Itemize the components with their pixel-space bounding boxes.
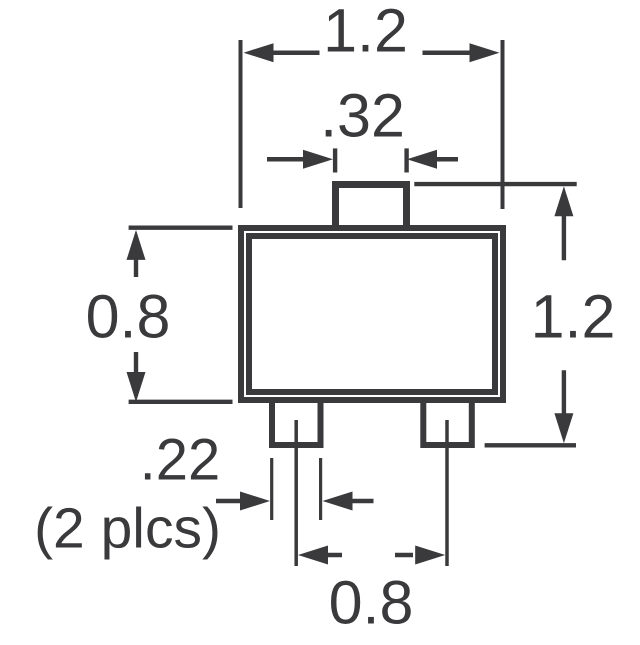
label .32 (tab width) — [320, 82, 405, 150]
label 0.8 (lead pitch) — [329, 569, 414, 637]
extension line, body right edge (for top 1.2) — [501, 40, 505, 209]
svg-text:0.8: 0.8 — [86, 283, 171, 351]
dimension line with arrows, right 1.2 — [554, 186, 573, 443]
svg-text:.22: .22 — [140, 428, 221, 493]
extension tick, tab right edge (for .32) — [404, 148, 408, 172]
label 1.2 (top width) — [323, 0, 408, 65]
extension tick, lead left edge (for .22) — [270, 458, 273, 520]
extension line, body bottom edge (for left 0.8) — [129, 400, 233, 404]
svg-text:1.2: 1.2 — [531, 283, 616, 351]
label 1.2 (overall height) — [531, 283, 616, 351]
label (2 plcs) — [34, 497, 221, 561]
dimension line with arrows, top 1.2 — [244, 43, 500, 62]
label 0.8 (body height) — [86, 283, 171, 351]
package body inner outline — [249, 236, 495, 392]
center line, right lead (for bottom 0.8) — [445, 420, 449, 566]
bottom left lead — [272, 401, 321, 445]
extension line, lead bottom edge (for right 1.2) — [485, 443, 576, 447]
svg-text:(2 plcs): (2 plcs) — [34, 497, 221, 561]
package body outer outline — [241, 228, 503, 400]
svg-text:1.2: 1.2 — [323, 0, 408, 65]
top tab lead — [336, 185, 407, 228]
center line, left lead (for bottom 0.8) — [294, 420, 298, 566]
dimension arrows, .22 — [216, 492, 374, 511]
label .22 (lead width) — [140, 428, 221, 493]
bottom right lead — [423, 401, 472, 445]
extension line, body left edge (for top 1.2) — [239, 40, 243, 208]
dimension arrows, .32 — [267, 150, 458, 169]
extension tick, lead right edge (for .22) — [319, 458, 322, 520]
dimension line with arrows, bottom 0.8 — [298, 546, 445, 565]
extension line, tab top edge (for right 1.2) — [414, 182, 576, 186]
svg-text:.32: .32 — [320, 82, 405, 150]
extension tick, tab left edge (for .32) — [333, 148, 337, 172]
svg-text:0.8: 0.8 — [329, 569, 414, 637]
extension line, body top edge (for left 0.8) — [129, 225, 233, 229]
dimension line with arrows, left 0.8 — [127, 230, 146, 402]
